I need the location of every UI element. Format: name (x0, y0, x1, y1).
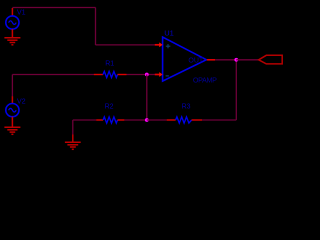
op-amp U1 (163, 37, 207, 81)
node B junction (145, 118, 149, 122)
wire V2 to R1 (12, 74, 94, 76)
label OPAMP (193, 75, 217, 84)
node A junction (145, 73, 149, 77)
label R2 (105, 103, 114, 110)
wire R3 to feedback corner (202, 119, 236, 121)
ground below V1 (4, 38, 20, 45)
wire V1 vertical drop (95, 8, 97, 46)
resistor R2 (96, 117, 124, 123)
resistor R1 (94, 71, 127, 77)
svg-text:R1: R1 (105, 61, 114, 68)
wire node A to minus input (147, 74, 155, 76)
AC source V1 (6, 8, 19, 38)
pin OUT lead (207, 59, 215, 61)
pin - input arrow (155, 72, 163, 77)
wire ground corner to R2 (73, 119, 96, 121)
label V1 (17, 8, 26, 17)
label R3 (182, 104, 191, 111)
ground at R2 (65, 135, 81, 150)
wire node B to R3 (147, 119, 167, 121)
wire node A down to node B (146, 75, 148, 121)
svg-text:OUT: OUT (188, 57, 204, 64)
wire R2 to node B (124, 119, 146, 121)
resistor R3 (167, 117, 202, 123)
pin + input arrow (155, 42, 163, 47)
output terminal tag (259, 55, 283, 64)
wire R1 to node A (127, 74, 147, 76)
label V2 (17, 97, 26, 106)
wire to op-amp plus input (96, 44, 156, 46)
wire V2 vertical (11, 75, 13, 97)
svg-text:R3: R3 (182, 104, 191, 111)
node C junction (234, 58, 238, 62)
label U1 (164, 29, 174, 38)
ground below V2 (4, 127, 20, 134)
svg-text:V1: V1 (17, 8, 26, 17)
svg-text:U1: U1 (164, 29, 174, 38)
svg-text:V2: V2 (17, 97, 26, 106)
wire feedback vertical (235, 60, 237, 120)
wire ground stem (72, 120, 74, 135)
svg-text:OPAMP: OPAMP (193, 75, 217, 84)
wire V1 top horizontal (12, 7, 95, 9)
AC source V2 (6, 96, 19, 127)
wire node C to output terminal (236, 59, 258, 61)
wire OUT to node C (215, 59, 236, 61)
svg-text:R2: R2 (105, 103, 114, 110)
label R1 (105, 61, 114, 68)
label OUT (188, 57, 204, 64)
